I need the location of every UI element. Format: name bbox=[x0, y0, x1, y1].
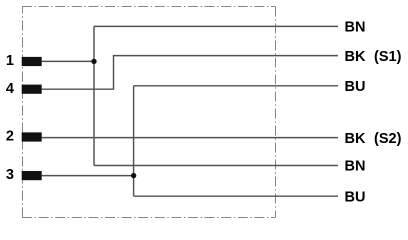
pin 4 contact bar bbox=[22, 85, 42, 94]
wire: pin 4 to BK (S1) lead bbox=[42, 56, 338, 90]
wire: BN lower lead bbox=[94, 165, 338, 167]
svg-text:2: 2 bbox=[6, 129, 14, 145]
enclosure outline (dash-dot sensor body border) bbox=[22, 7, 276, 218]
svg-text:(S1): (S1) bbox=[374, 49, 402, 65]
svg-text:BK: BK bbox=[345, 131, 366, 147]
wire: node A vertical bus (BN net) bbox=[93, 26, 95, 165]
svg-text:3: 3 bbox=[6, 167, 14, 183]
node B junction dot bbox=[131, 173, 136, 178]
svg-text:BU: BU bbox=[345, 79, 366, 95]
svg-text:(S2): (S2) bbox=[374, 131, 402, 147]
wire: BN top lead bbox=[94, 25, 338, 27]
svg-text:BN: BN bbox=[345, 20, 366, 36]
svg-text:1: 1 bbox=[6, 53, 14, 69]
svg-text:4: 4 bbox=[6, 81, 14, 97]
pin 2 contact bar bbox=[22, 132, 42, 141]
wire: pin 2 to BK (S2) lead bbox=[42, 137, 338, 139]
svg-text:BK: BK bbox=[345, 49, 366, 65]
wire: BU bottom lead bbox=[134, 195, 338, 197]
pin 1 contact bar bbox=[22, 57, 42, 66]
wire: BU upper lead bbox=[134, 85, 338, 87]
pin 3 contact bar bbox=[22, 171, 42, 180]
svg-text:BN: BN bbox=[345, 159, 366, 175]
wire: node B vertical bus (BU net) bbox=[133, 86, 135, 196]
wire: pin 3 to node B bbox=[42, 175, 134, 177]
wire: pin 1 to node A bbox=[42, 60, 94, 62]
svg-text:BU: BU bbox=[345, 189, 366, 205]
node A junction dot bbox=[91, 59, 96, 64]
